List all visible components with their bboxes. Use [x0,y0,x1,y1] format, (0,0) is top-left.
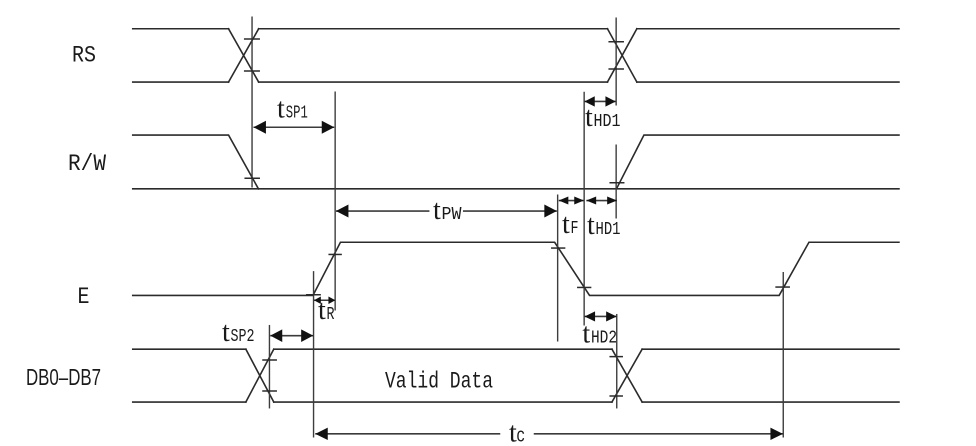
svg-text:RS: RS [72,43,96,69]
svg-text:t: t [433,195,441,226]
svg-text:DB0–DB7: DB0–DB7 [26,364,101,390]
svg-text:SP2: SP2 [231,327,255,347]
svg-text:HD1: HD1 [596,220,621,240]
svg-text:t: t [562,209,570,240]
svg-text:c: c [516,426,525,446]
svg-text:t: t [585,102,593,133]
svg-text:HD2: HD2 [591,329,617,349]
svg-text:PW: PW [442,205,462,225]
svg-text:R: R [327,305,335,325]
svg-text:HD1: HD1 [594,112,621,132]
svg-text:R/W: R/W [68,151,106,177]
svg-text:Valid Data: Valid Data [385,369,493,395]
svg-text:t: t [582,319,590,350]
svg-text:E: E [78,284,90,310]
svg-text:t: t [277,94,285,125]
svg-text:t: t [222,317,230,348]
svg-text:t: t [318,295,326,326]
svg-text:SP1: SP1 [286,104,308,124]
svg-text:F: F [571,219,579,239]
svg-text:t: t [587,210,595,241]
